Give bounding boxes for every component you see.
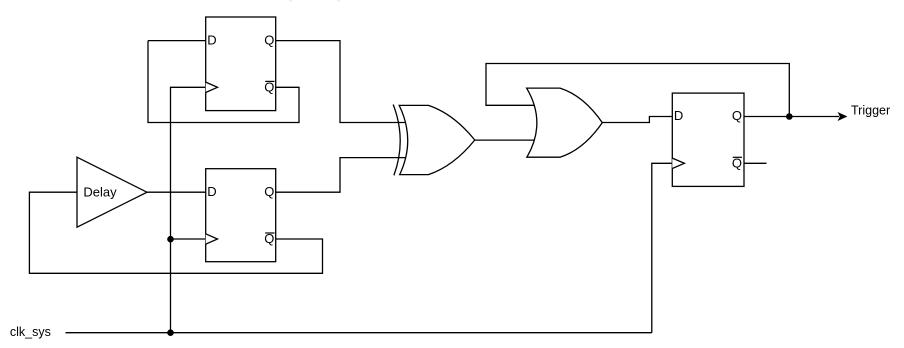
wire U2 Qbar feedback to Delay input [29, 192, 322, 273]
U2 Qbar overbar [265, 232, 274, 234]
junction dot U5 Q feedback [786, 113, 793, 120]
wire U5 Q to Trigger [744, 116, 839, 118]
svg-text:Delay: Delay [83, 184, 117, 199]
or gate U6 [527, 88, 603, 157]
svg-text:D: D [207, 32, 216, 47]
wire U2 Q to XOR bottom input [276, 158, 411, 193]
svg-text:clk_sys: clk_sys [10, 325, 51, 339]
flip-flop U1 [206, 17, 276, 111]
wire clk branch to U2 clock [171, 238, 206, 240]
wire U5 Qbar stub [744, 162, 767, 164]
speck artifact right [337, 0, 339, 2]
U5 Qbar overbar [733, 156, 742, 158]
junction dot clk/U2 [167, 236, 174, 243]
wire clk_sys rise to U5 clock [652, 163, 673, 332]
svg-text:Q: Q [264, 32, 274, 47]
flip-flop U2 [206, 169, 276, 262]
junction dot clk_sys [167, 329, 174, 336]
svg-text:Q: Q [264, 184, 274, 199]
wire U1 D input [148, 40, 206, 42]
wire clk vertical branch to U1 clock [171, 87, 206, 332]
svg-text:D: D [674, 108, 683, 123]
svg-text:D: D [207, 184, 216, 199]
xor gate U4 [393, 105, 475, 176]
wire XOR output to OR bottom input [474, 139, 538, 141]
svg-text:Trigger: Trigger [851, 104, 890, 118]
arrowhead Trigger [838, 112, 848, 121]
flip-flop U5 [672, 93, 744, 186]
wire Delay output to U2 D [147, 191, 206, 193]
U1 Qbar overbar [265, 80, 274, 82]
delay buffer U3 [77, 157, 147, 227]
wire clk_sys horizontal [66, 332, 652, 334]
svg-text:Q: Q [732, 108, 742, 123]
wire U5 Q feedback to OR top input [486, 64, 789, 117]
wire OR output to U5 D [602, 117, 672, 123]
speck artifact left [289, 0, 291, 2]
wire U1 Q to XOR top input [276, 41, 411, 123]
wire U1 Qbar feedback to D [148, 41, 299, 123]
